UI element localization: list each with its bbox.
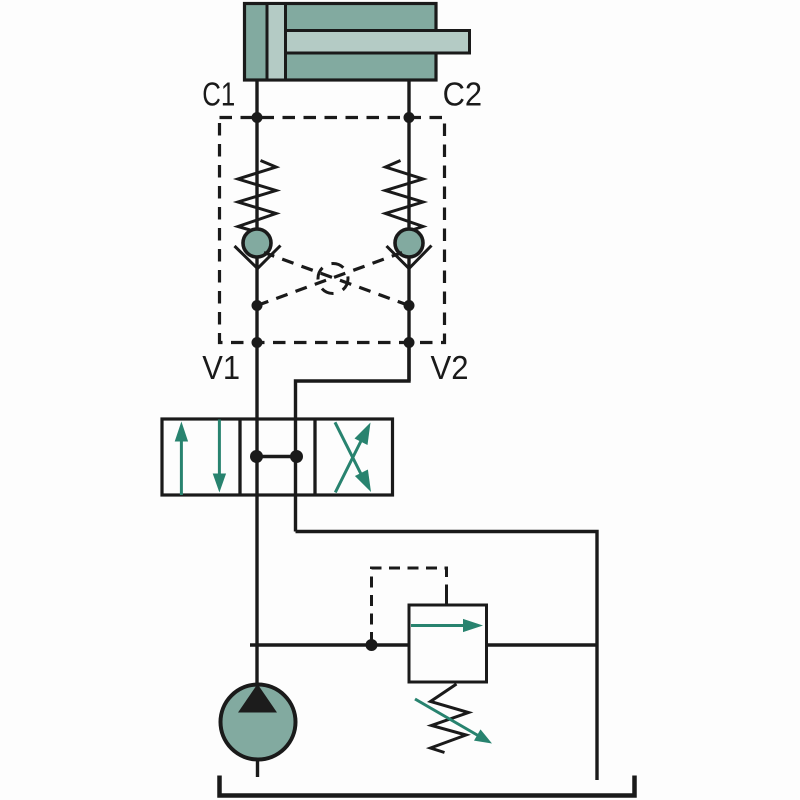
spring left check valve [238,161,276,231]
valve crossed arrow ascending (right cell) [335,439,362,492]
cylinder rod [285,31,470,54]
cylinder piston [267,4,286,81]
relief adjust arrow [415,699,478,736]
wire relief branch right [487,643,598,646]
pump [221,685,296,760]
wire V2 jog to valve [296,343,410,421]
check valve seat right [387,246,432,269]
check valve ball right [395,229,423,257]
node C2 junction [404,112,415,123]
check valve seat left [235,246,281,269]
relief valve body [409,605,487,682]
wire C1 port [255,80,258,419]
spring right check valve [386,161,424,231]
svg-text:C1: C1 [202,76,235,113]
valve arrow up (left cell) [180,440,183,495]
wire C2 port [407,80,410,381]
pilot line cross right-to-left [264,253,409,306]
svg-text:V2: V2 [431,349,469,386]
dashed enclosure box [220,118,445,343]
valve arrow down (left cell) [218,420,221,475]
node pilot left [252,300,263,311]
node C1 junction [252,112,263,123]
valve crossed arrow descending (right cell) [335,422,363,477]
tank [220,776,635,796]
node pilot right [404,300,415,311]
wire tank return jog [296,532,598,781]
wire pump pressure line [255,419,258,684]
node relief pilot [366,639,378,651]
valve center dots and bar [257,455,297,458]
pump triangle [238,684,277,713]
directional valve divider 1 [238,419,241,495]
svg-text:C2: C2 [443,76,483,113]
pilot line relief stub into box [445,593,448,606]
check valve ball left [243,229,271,257]
pilot crossing circle [318,264,348,294]
cylinder body [245,4,437,81]
wire valve B through line [294,420,297,532]
relief valve arrow [411,624,465,627]
relief valve spring [431,684,469,753]
directional valve body [162,419,393,495]
pilot line relief [372,568,447,643]
wire pump suction [256,761,259,778]
wire relief branch left [250,643,409,646]
directional valve divider 2 [313,419,316,495]
svg-text:V1: V1 [202,349,240,386]
node V2 [404,337,415,348]
node V1 [252,337,263,348]
pilot line cross left-to-right [257,253,402,306]
